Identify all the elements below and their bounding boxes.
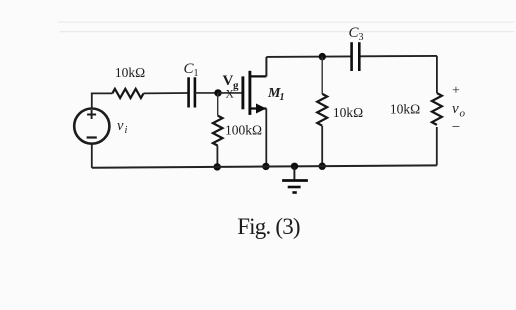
- svg-text:+: +: [452, 84, 460, 99]
- svg-text:1: 1: [194, 68, 199, 79]
- label M1: [267, 86, 285, 103]
- svg-text:X: X: [226, 89, 235, 101]
- label 100kOhm: [225, 123, 262, 138]
- svg-text:10kΩ: 10kΩ: [115, 65, 145, 80]
- svg-text:V: V: [223, 73, 234, 89]
- svg-text:Fig. (3): Fig. (3): [237, 214, 300, 239]
- caption Fig. (3): [237, 214, 300, 239]
- voltage source Vi: [74, 109, 109, 144]
- svg-text:i: i: [125, 125, 128, 136]
- svg-text:3: 3: [359, 32, 364, 43]
- transistor M1: [243, 71, 267, 115]
- resistor R 100k: [213, 116, 223, 146]
- svg-text:v: v: [117, 118, 124, 134]
- label minus (output): [452, 120, 460, 136]
- svg-text:10kΩ: 10kΩ: [333, 105, 363, 120]
- label Vg: [223, 73, 240, 92]
- top node junction dot: [319, 53, 326, 60]
- wire: top rail drain to right corner: [266, 56, 437, 57]
- wire: right vertical top: [436, 56, 438, 93]
- junction dot bottom of mid resistor: [319, 163, 326, 170]
- label X: [226, 89, 235, 101]
- label + (output): [452, 84, 460, 99]
- svg-text:10kΩ: 10kΩ: [390, 102, 420, 117]
- svg-text:1: 1: [280, 92, 285, 103]
- svg-text:g: g: [233, 80, 239, 92]
- label 10kOhm (input): [115, 65, 145, 80]
- resistor R 10k (output load): [432, 93, 442, 125]
- wire: output load to bottom rail: [436, 127, 438, 165]
- node X junction dot: [214, 89, 221, 96]
- resistor R 10k (input): [112, 89, 143, 98]
- wire: R 100k to bottom rail: [216, 146, 218, 167]
- label 10kOhm (drain load): [333, 105, 363, 120]
- label C3: [349, 25, 364, 43]
- svg-text:v: v: [452, 101, 459, 117]
- label C1: [184, 61, 199, 79]
- wire: bottom rail: [92, 165, 437, 167]
- capacitor C1: [189, 77, 195, 107]
- wire: input wire source to resistor: [91, 92, 112, 94]
- label v_i: [117, 118, 128, 136]
- ground: [282, 166, 308, 192]
- wire: left vertical from source to input wire: [91, 93, 93, 108]
- wire: source down: [265, 109, 267, 167]
- resistor R 10k (drain load): [317, 94, 327, 126]
- wire: node X down to R 100k: [217, 93, 219, 116]
- svg-text:o: o: [460, 108, 466, 120]
- wire: C1 to node X: [195, 92, 218, 94]
- label 10kOhm (output load): [390, 102, 420, 117]
- wire: R 10k mid to bottom rail: [321, 126, 323, 166]
- junction dot bottom of R100k: [214, 163, 221, 170]
- label v_o: [452, 101, 466, 120]
- junction dot source bottom: [262, 163, 269, 170]
- wire: top node down to R 10k mid: [321, 57, 323, 94]
- svg-text:−: −: [452, 120, 460, 136]
- wire: resistor to C1: [144, 92, 189, 94]
- wire: drain up: [265, 57, 267, 77]
- capacitor C3: [352, 42, 360, 71]
- wire: node X to gate: [218, 92, 242, 94]
- wire: source bottom left vertical: [91, 144, 93, 168]
- scan edge artifact lines: [58, 22, 514, 31]
- svg-text:100kΩ: 100kΩ: [225, 123, 262, 138]
- junction dot ground: [291, 163, 298, 170]
